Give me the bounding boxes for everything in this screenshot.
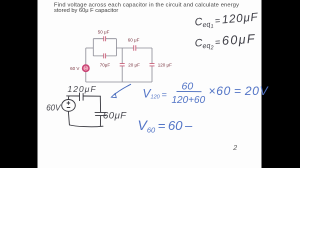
wire: parallel block left edge (92, 39, 94, 56)
svg-text:60 V: 60 V (70, 66, 79, 71)
svg-text:2: 2 (232, 145, 237, 152)
wire: top rail right of cap (83, 95, 100, 97)
svg-text:60μF: 60μF (103, 110, 127, 121)
svg-text:Ceq1 = 120μF: Ceq1 = 120μF (194, 12, 259, 32)
capacitor C4 20uF plates (120, 64, 125, 66)
capacitor C2 70uF plates (104, 53, 106, 58)
source polarity marks (85, 66, 86, 69)
svg-text:60V: 60V (46, 103, 61, 112)
capacitor 120uF plates (handwritten) (80, 93, 84, 101)
source circle (handwritten 60V) (62, 100, 76, 112)
handwritten equation Ceq1 = 120 uF (194, 12, 259, 32)
svg-text:60: 60 (182, 80, 194, 92)
wire: top-left from source up and right (67, 96, 79, 100)
wire: right rail below cap (99, 116, 101, 126)
capacitor C1 50uF plates (104, 36, 106, 41)
svg-text:120μF: 120μF (68, 84, 97, 94)
wire: bottom edge segments around capacitor C70 (93, 55, 116, 57)
labels of printed circuit (70, 29, 172, 71)
wire: 120uF branch vertical (151, 48, 153, 82)
svg-text:×60 = 20V: ×60 = 20V (209, 84, 269, 98)
wire: top rail to 60uF capacitor (116, 47, 133, 49)
wire: 20uF branch vertical (121, 48, 123, 82)
wire: source bottom to bottom rail (85, 72, 87, 82)
svg-text:120 μF: 120 μF (158, 63, 172, 68)
voltage source V1 60V with pink highlight (83, 65, 89, 71)
svg-text:50 μF: 50 μF (98, 29, 110, 34)
wire: bottom rail (86, 81, 152, 83)
arrowhead (111, 93, 116, 97)
wire: top rail after 60uF to right corner (136, 47, 152, 49)
fraction bar (177, 90, 202, 92)
handwritten equation Ceq2 = 60 uF (194, 32, 256, 53)
svg-text:V120 =: V120 = (143, 87, 167, 101)
wire: top edge segments around capacitor C50 (93, 38, 116, 40)
capacitor C3 60uF plates (134, 45, 136, 51)
wire: left rail from source bottom (68, 112, 69, 125)
svg-text:70μF: 70μF (100, 62, 111, 67)
source minus mark (67, 107, 70, 109)
capacitor C5 120uF plates (150, 64, 155, 66)
arrow pointing to handwritten circuit (114, 84, 131, 95)
left black pillarbox bar (0, 0, 38, 168)
svg-text:stored by 60μ F capacitor: stored by 60μ F capacitor (54, 8, 118, 14)
svg-text:60 μF: 60 μF (128, 37, 140, 42)
capacitor 60uF plates (handwritten) (95, 112, 106, 115)
right black pillarbox bar (262, 0, 301, 168)
source plus mark (67, 102, 70, 105)
wire: source top up to node (85, 48, 87, 65)
svg-text:20 μF: 20 μF (128, 63, 140, 68)
wire: parallel block right edge (115, 39, 117, 56)
svg-text:120+60: 120+60 (172, 95, 206, 106)
wire: right rail down to cap (99, 96, 101, 112)
svg-text:V60 = 60 –: V60 = 60 – (138, 117, 194, 135)
wire: bottom rail (70, 125, 103, 127)
svg-text:Ceq2 = 60μF: Ceq2 = 60μF (194, 32, 256, 53)
wire: stub to parallel block left (86, 47, 94, 49)
